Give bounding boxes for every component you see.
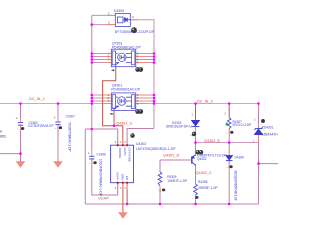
wire Q4301 pin leads right [136, 94, 148, 96]
svg-text:PD4500B01AC-DP: PD4500B01AC-DP [111, 87, 141, 91]
ic U4303 [111, 145, 134, 183]
svg-text:D4303: D4303 [114, 9, 124, 13]
wire U4303 EN stub [126, 183, 128, 204]
wire Q7303 left rows [92, 53, 112, 55]
svg-text:DC_IN_3: DC_IN_3 [197, 99, 213, 103]
svg-text:SMD16U3P-DP-U: SMD16U3P-DP-U [166, 125, 192, 129]
zener ZD4301 [255, 127, 263, 134]
node EN rail [126, 203, 129, 206]
wire gate route Q7303 to U4303 GATE [103, 67, 123, 146]
node C4302 top [19, 102, 22, 105]
svg-text:PD4500B01AC-DP: PD4500B01AC-DP [112, 46, 142, 50]
wire D4302 bottom lead [195, 127, 197, 135]
diode D4309 [226, 156, 233, 161]
tilde marks [17, 126, 255, 200]
wire Q4302 collector to R4308 [195, 164, 197, 184]
wire Q4301 pin leads left [104, 94, 111, 96]
pin numbers packages [108, 52, 140, 107]
svg-text:503607#BRA0-1-DP: 503607#BRA0-1-DP [67, 123, 71, 152]
node D4303 pin2 junction [91, 23, 94, 26]
marker ellipse R4305 [162, 188, 165, 191]
wire C4306 leads [91, 151, 93, 156]
diode D4303 [115, 13, 130, 26]
marker ellipses Q4302 [196, 150, 200, 155]
svg-text:Q4302_C: Q4302_C [196, 171, 213, 175]
node R4305 rail [159, 203, 162, 206]
svg-text:~: ~ [17, 127, 19, 131]
wire Q4302 base [160, 159, 191, 161]
svg-text:~: ~ [55, 126, 57, 130]
resistor R4308 [194, 184, 198, 195]
mosfet Q4301 package [111, 93, 136, 111]
svg-text:Q4302: Q4302 [197, 157, 207, 161]
svg-text:GATE: GATE [123, 148, 127, 156]
svg-text:BYT1550#FAD-2222P-DP: BYT1550#FAD-2222P-DP [115, 30, 155, 34]
wire DC_IN_3 bus [136, 103, 259, 105]
wire D4303 pin leads [107, 14, 115, 16]
wire D4309 column [228, 143, 230, 156]
marker ellipses Q4301 [135, 109, 140, 114]
wire R4307 bottom lead [228, 129, 230, 135]
wire Q7303 pin leads left [104, 53, 111, 55]
wire Q4302_E line [196, 142, 259, 144]
svg-text:C470UF25VM-DP: C470UF25VM-DP [28, 124, 54, 128]
marker ellipse C4306 [93, 161, 96, 164]
wire DC_IN_2 bus [0, 103, 111, 105]
svg-text:~: ~ [225, 131, 227, 135]
svg-text:15B4A4TH-DP: 15B4A4TH-DP [262, 133, 278, 137]
node R4307 top [228, 102, 231, 105]
svg-text:330R5F-1-DP: 330R5F-1-DP [198, 186, 218, 190]
wire D4302 column [195, 104, 197, 121]
node gate corner [113, 125, 116, 128]
marker ellipse C4302 [21, 127, 24, 130]
svg-text:GND: GND [121, 174, 125, 182]
marker ellipse C4307 [59, 126, 62, 129]
wire left edge stub [0, 153, 21, 155]
wire Q4301 left rows [92, 94, 112, 96]
svg-text:10KRJF-L-DP: 10KRJF-L-DP [167, 179, 187, 183]
node D4302 top [194, 102, 197, 105]
svg-text:Q4302_B: Q4302_B [163, 154, 180, 158]
marker ellipse D4303 [131, 27, 137, 33]
wire U4303 bottom pin leads [117, 183, 119, 190]
wire right T to edge [259, 163, 279, 165]
wire C4302 leads [20, 119, 22, 122]
node Q4301 left rows [91, 94, 94, 97]
wire Q4302 emitter drop [195, 143, 197, 157]
svg-text:C4306: C4306 [97, 152, 107, 156]
ground C4302 [16, 161, 26, 168]
marker ellipse D4302 [192, 132, 196, 137]
svg-text:31DQ06#B5R4B-1UF: 31DQ06#B5R4B-1UF [234, 170, 238, 201]
wire ZD4301 column [258, 104, 260, 129]
svg-text:~1: ~1 [190, 133, 194, 137]
svg-text:+: + [54, 116, 56, 120]
svg-text:DC_IN_2: DC_IN_2 [29, 97, 45, 101]
svg-text:U4303: U4303 [136, 142, 146, 146]
resistor R4305 [158, 172, 162, 186]
node R4308 rail [194, 203, 197, 206]
marker gate arrow Q7303 [111, 69, 114, 71]
svg-text:R4308: R4308 [198, 180, 208, 184]
wire R4308 bottom lead [195, 195, 197, 200]
wire anode branch column X2 [84, 129, 86, 204]
marker green diamond R4307 [225, 122, 228, 126]
marker ellipse U4303 [130, 133, 134, 138]
ground C4307 [53, 161, 63, 168]
node D4309 rail [228, 203, 231, 206]
node Q4302_E mid [228, 141, 231, 144]
marker ellipses Q7303 [135, 67, 140, 72]
marker highlights [131, 29, 201, 153]
diode D4302 [192, 121, 200, 127]
node left stub [19, 152, 22, 155]
svg-text:LM74700QDBVRQ1-1-DP: LM74700QDBVRQ1-1-DP [136, 147, 176, 151]
wire main left column X1 [91, 15, 93, 151]
marker ellipse R4308 [195, 196, 198, 199]
svg-text:~: ~ [192, 196, 194, 200]
wire C4307 drop [57, 104, 59, 122]
marker gate arrow Q4301 [109, 113, 112, 115]
svg-text:0RCL0-U-DP: 0RCL0-U-DP [233, 123, 252, 127]
svg-text:~: ~ [227, 165, 229, 169]
svg-text:CATHODE: CATHODE [127, 148, 131, 162]
svg-text:~: ~ [89, 161, 91, 165]
node anode column [91, 128, 94, 131]
svg-text:+: + [16, 117, 18, 121]
wire D4303 pin2 [92, 24, 116, 26]
marker ellipse ZD4301 [261, 119, 265, 123]
capacitor C4306 [89, 156, 94, 159]
node Q4301 right rows [153, 94, 156, 97]
svg-text:~2: ~2 [158, 189, 162, 193]
wire U4303 gnd stem [122, 183, 124, 213]
pin numbers U4303 top [115, 140, 127, 190]
pin dots U4303 [117, 144, 129, 184]
svg-text:Q4302_E: Q4302_E [204, 139, 221, 143]
node Q7303 right rows [153, 52, 156, 55]
svg-text:Q4301_G: Q4301_G [116, 122, 133, 126]
wire D4303 pin1 [92, 14, 116, 16]
node C4307 top [57, 102, 60, 105]
wire anode line [85, 129, 117, 145]
svg-text:001: 001 [0, 135, 6, 139]
wire Q7303 right rows [136, 53, 154, 55]
wire X1 lower to VCAP corner [92, 159, 118, 195]
wire Q7303 pin leads right [136, 53, 148, 55]
wire D4309 leads [228, 149, 230, 155]
marker ellipse D4309 [229, 165, 232, 168]
wire U4303 top pin leads [117, 139, 119, 146]
transistor Q4302 [192, 155, 196, 165]
wire R4305 column [159, 160, 161, 172]
pin numbers D4303 [108, 12, 134, 25]
wire R4307 column [228, 104, 230, 118]
svg-text:100UF6R3V#BRA0-1-DP: 100UF6R3V#BRA0-1-DP [99, 159, 103, 197]
svg-text:+: + [88, 151, 90, 155]
capacitor C4307 [55, 122, 60, 125]
capacitor C4302 [18, 123, 23, 126]
wire ZD4301 leads [258, 104, 260, 110]
svg-text:VCAP: VCAP [116, 172, 120, 180]
wire C4307 leads [57, 118, 59, 121]
ground U4303 [118, 212, 128, 219]
svg-text:ANODE: ANODE [118, 148, 122, 159]
svg-text:C4307: C4307 [66, 115, 76, 119]
svg-text:D4309: D4309 [235, 156, 245, 160]
svg-text:EN: EN [125, 176, 129, 180]
svg-text:ZD4301: ZD4301 [262, 126, 274, 130]
wire bottom rail EN [85, 203, 258, 205]
mosfet Q7303 package [111, 49, 136, 66]
resistor R4307 [227, 118, 231, 129]
wire Q4301 gate stub [113, 111, 115, 126]
node right T [257, 162, 260, 165]
node Q7303 left rows [91, 52, 94, 55]
svg-text:VCAP: VCAP [98, 195, 109, 200]
wire Q4301 right rows [136, 94, 154, 96]
wire cathode line [127, 129, 154, 146]
wire R4305 bottom lead [159, 186, 161, 192]
node ZD4301 top [257, 102, 260, 105]
node Q4302_E left [194, 141, 197, 144]
wire C4302 drop [20, 104, 22, 122]
marker ellipse R4307 [230, 131, 233, 134]
wire D4303 pin3 to X3 [130, 20, 154, 129]
